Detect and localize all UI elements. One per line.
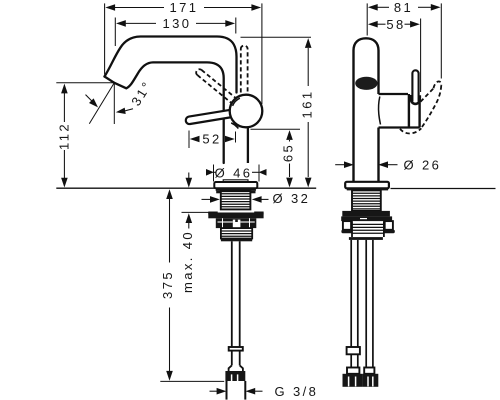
bottom dark band (front shank) (349, 237, 383, 240)
dimension 375 (169, 199, 171, 263)
handle housing (front) (379, 93, 409, 95)
svg-text:max. 40: max. 40 (180, 230, 195, 293)
spout outlet end face (31° cut) (105, 77, 115, 83)
spout inner contour and body left edge (114, 62, 223, 163)
supply hoses (351, 240, 373, 368)
wire: counter mounting line (left view) (56, 187, 316, 189)
svg-text:58: 58 (386, 17, 405, 32)
escutcheon base dark band (front) (347, 188, 388, 190)
dimension 112 (56, 82, 114, 84)
dimension 81 (367, 3, 441, 78)
body right edge below handle ball (247, 127, 249, 163)
dimension max. 40 (188, 173, 190, 179)
handle lever (solid, lowered position) (186, 109, 236, 124)
svg-text:G 3/8: G 3/8 (275, 384, 319, 399)
dimension Ø26 (335, 164, 345, 166)
dimension Ø32 (202, 198, 211, 200)
dimension 130 (115, 18, 236, 47)
dimension 58 (420, 19, 422, 93)
hose hex connector left (343, 374, 363, 387)
svg-text:Ø 26: Ø 26 (404, 158, 442, 173)
dimension Ø46 (206, 169, 214, 176)
svg-text:81: 81 (394, 0, 413, 15)
nut side lug left (343, 221, 351, 230)
faucet body column (front) (354, 38, 379, 182)
mounting nut top flange (208, 213, 263, 219)
svg-text:Ø 32: Ø 32 (273, 191, 311, 206)
pin socket (411, 95, 420, 104)
wire: counter mounting line (right view) (391, 188, 496, 190)
escutcheon base dark band (216, 188, 256, 191)
thread lines (222, 194, 250, 207)
ball cup arc (below left) (231, 123, 238, 129)
rod flare (229, 365, 243, 371)
ball socket inner arc (233, 98, 240, 106)
dimension 171 (105, 3, 262, 104)
dimension 161 (307, 48, 309, 86)
mounting nut second band (front) (341, 216, 392, 221)
svg-text:112: 112 (56, 122, 71, 150)
escutcheon plate (front) (345, 182, 389, 189)
dimension 161 reference line (spout top) (241, 36, 312, 38)
lower threaded section (221, 228, 252, 238)
angle reference vertical line (113, 83, 115, 124)
handle ball joint (230, 95, 263, 128)
G3/8 outlet tube (226, 381, 228, 400)
svg-text:65: 65 (281, 143, 296, 162)
svg-text:375: 375 (160, 270, 175, 299)
rod lower part (231, 351, 233, 366)
housing-body joint curve (379, 97, 381, 125)
handle lever (dashed, vertical position) (241, 46, 248, 93)
threaded shank (front) (352, 190, 381, 211)
hose end collars (347, 368, 359, 374)
escutcheon plate (214, 182, 257, 188)
dimension 65 reference line (ball underside) (251, 128, 301, 130)
escutcheon feet (216, 191, 221, 193)
spout outlet aerator (dark ellipse) (355, 77, 377, 90)
dimension G 3/8 (210, 390, 218, 392)
mounting nut top flange (front) (342, 211, 390, 217)
nut side lug right (385, 221, 393, 230)
angle leader arrow on slanted line (86, 95, 92, 101)
escutcheon dome top line with ticks (223, 180, 248, 183)
dimension Ø46 extension lines (213, 165, 215, 182)
svg-text:Ø 46: Ø 46 (215, 165, 253, 180)
handle pin lever (dashed, swung out 45°) (400, 81, 441, 133)
threaded shank (Ø32) (221, 191, 251, 209)
svg-text:130: 130 (163, 16, 192, 31)
dimension 52 (188, 131, 190, 149)
angle reference 31° line (89, 83, 114, 124)
lower hose nut (225, 371, 245, 381)
handle lever (dashed, 45° position) (196, 69, 236, 103)
svg-text:52: 52 (202, 132, 221, 147)
handle pin lever (up position) (412, 70, 418, 101)
mounting nut body (216, 218, 256, 228)
angle leader arrow on vertical line (125, 109, 134, 111)
hose collar nut (left hose) (347, 347, 360, 354)
svg-text:161: 161 (299, 90, 314, 119)
threaded fixing rod (231, 241, 233, 347)
dimension 65 (289, 140, 291, 142)
spout outer contour (105, 37, 237, 93)
rod collar (229, 347, 243, 351)
hose hex connector right (362, 374, 378, 387)
center threaded section (front) (352, 224, 384, 233)
svg-text:171: 171 (170, 0, 199, 15)
